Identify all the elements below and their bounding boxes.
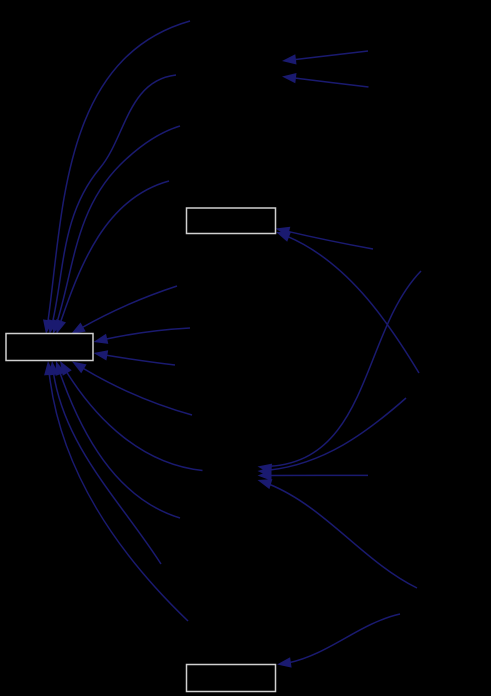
wire edgeH: [269, 484, 417, 588]
arrowhead edge4: [56, 319, 66, 334]
wire edge1: [48, 21, 190, 322]
arrowhead edgeH: [258, 479, 273, 489]
wire edge7: [105, 355, 175, 365]
arrowhead edgeC: [276, 227, 291, 237]
arrowhead edge3: [53, 319, 63, 334]
wire edge2: [52, 75, 176, 323]
arrowhead edgeD: [276, 232, 291, 242]
wire edgeF: [269, 398, 406, 470]
arrowhead edgeB: [282, 73, 297, 83]
arrowhead edge1: [43, 319, 53, 334]
arrowhead edge8: [72, 362, 87, 374]
arrowhead edge7: [94, 350, 109, 360]
arrowhead edge2: [48, 319, 58, 334]
wire edgeE: [270, 271, 421, 466]
arrowhead edgeA: [282, 54, 297, 64]
arrowhead edge6: [94, 334, 109, 344]
node box3: [187, 665, 276, 692]
arrowhead edgeF: [258, 467, 272, 477]
wire edge4: [60, 181, 169, 323]
wire edge10: [60, 372, 180, 518]
arrowhead edge10: [56, 361, 66, 376]
wire edge5: [81, 286, 177, 328]
arrowhead edgeE: [258, 464, 273, 474]
wire edge12: [49, 373, 188, 622]
wire edgeG: [269, 474, 368, 476]
arrowhead edge9: [60, 361, 72, 376]
wire edge9: [66, 371, 203, 471]
arrowhead edge5: [71, 323, 86, 335]
wire edgeB: [294, 78, 369, 87]
arrowhead edgeI: [277, 657, 292, 667]
wire edgeI: [289, 614, 400, 663]
wire edge3: [57, 126, 180, 323]
wire edge8: [82, 368, 192, 415]
arrowhead edge12: [44, 361, 54, 375]
node box2: [187, 208, 276, 234]
wire edgeC: [287, 231, 373, 249]
node root box: [6, 334, 93, 361]
wire edge11: [53, 373, 161, 565]
arrowhead edgeG: [258, 470, 272, 480]
arrowhead edge11: [49, 361, 59, 376]
wire edgeA: [293, 51, 368, 60]
wire edge6: [105, 328, 190, 339]
wire edgeD: [287, 236, 419, 373]
